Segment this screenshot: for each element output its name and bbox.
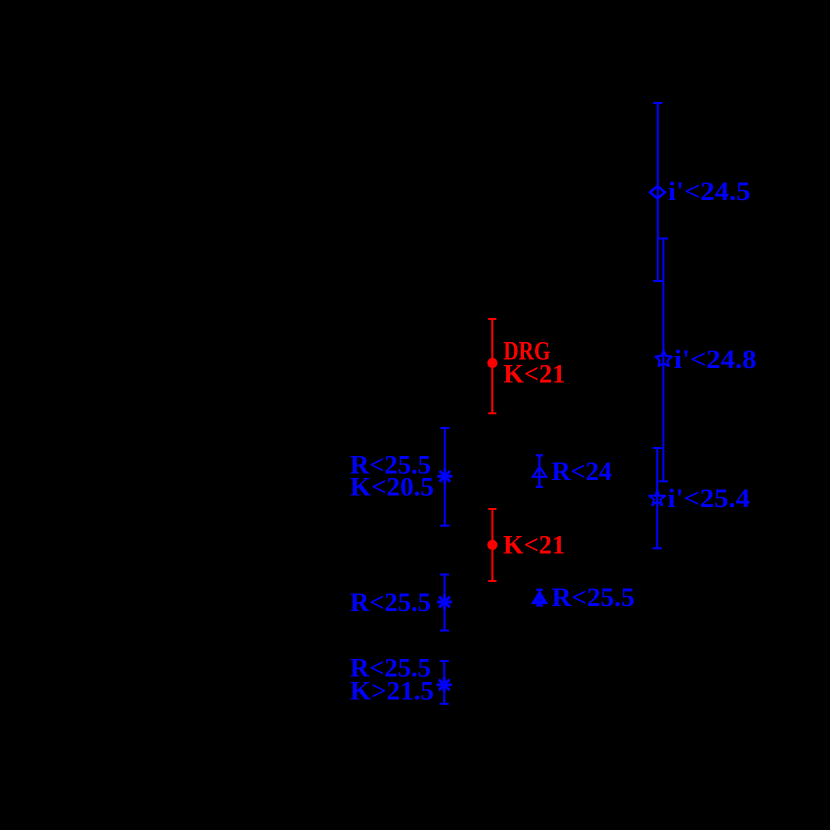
- svg-text:R<25.5: R<25.5: [350, 588, 431, 617]
- svg-text:K<21: K<21: [503, 360, 565, 389]
- red circle marker K<21: [487, 540, 497, 550]
- svg-text:i'<25.4: i'<25.4: [668, 484, 751, 513]
- svg-text:K<20.5: K<20.5: [350, 473, 434, 502]
- asterisk marker R<25.5: [437, 594, 452, 609]
- error bar red DRG K<21: [488, 319, 496, 413]
- star marker i'<24.8: [656, 351, 672, 366]
- error bar i'<25.4: [653, 448, 662, 548]
- svg-text:K>21.5: K>21.5: [350, 676, 434, 705]
- nearly filled triangle marker R<25.5: [534, 594, 545, 603]
- star marker i'<25.4: [649, 490, 665, 505]
- svg-text:i'<24.5: i'<24.5: [668, 177, 751, 206]
- error bar asterisk R<25.5: [440, 575, 449, 631]
- asterisk marker R<25.5 K<20.5: [437, 469, 452, 484]
- asterisk marker R<25.5 K>21.5: [437, 677, 452, 692]
- error bar filled triangle R<25.5: [536, 590, 543, 606]
- error bar i'<24.5: [653, 103, 662, 281]
- error bar red K<21: [488, 509, 496, 581]
- svg-text:R<25.5: R<25.5: [552, 583, 635, 612]
- error bar asterisk R<25.5 K>21.5: [440, 661, 449, 704]
- diamond marker i'<24.5: [650, 186, 665, 198]
- svg-text:R<24: R<24: [552, 457, 613, 486]
- error bar asterisk R<25.5 K<20.5: [440, 428, 449, 526]
- svg-text:K<21: K<21: [503, 531, 565, 560]
- error bar i'<24.8: [659, 239, 668, 482]
- error bar open triangle R<24: [536, 455, 543, 487]
- open triangle marker R<24: [533, 467, 546, 477]
- svg-text:i'<24.8: i'<24.8: [674, 345, 757, 374]
- red circle marker DRG: [487, 358, 497, 368]
